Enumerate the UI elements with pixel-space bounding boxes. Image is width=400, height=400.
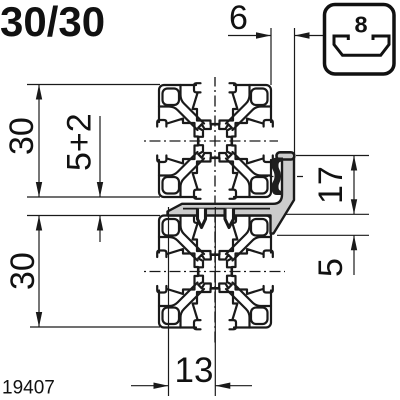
dim 5: arrow up from below (tip y=235.3) [351, 235, 357, 250]
dim: left extension line lower-top (y=215.5) [27, 215, 160, 217]
svg-text:19407: 19407 [2, 378, 55, 399]
dim 6: left arrow tail [228, 35, 271, 37]
svg-text:8: 8 [354, 12, 367, 38]
svg-text:17: 17 [312, 166, 350, 204]
icon slot glyph [334, 36, 389, 55]
lower profile 30x30 [157, 214, 273, 330]
dim 13: left arrow (tip x=168.5) [154, 383, 169, 389]
centerline vertical [214, 77, 216, 206]
svg-text:30: 30 [3, 117, 41, 155]
dim: left extension line top (y=84.5) [27, 84, 160, 86]
svg-text:30/30: 30/30 [0, 0, 105, 45]
dim: left extension line upper-bottom (y=197) [27, 196, 160, 198]
dim 6: extension line right (x=294.5) [294, 28, 296, 156]
centerline bracket axis [257, 176, 303, 178]
dim 6: left arrow (tip x=271) [256, 32, 271, 38]
dim 17: arrow down [351, 199, 357, 214]
dim 6: right arrow tail [295, 35, 324, 37]
dim 30 upper: arrow up [36, 85, 42, 100]
dim 13: right arrow tail [215, 385, 252, 387]
svg-text:13: 13 [175, 351, 214, 390]
centerline horizontal upper [143, 140, 278, 142]
svg-text:5+2: 5+2 [61, 113, 99, 171]
dim 17: line [353, 156, 355, 215]
dim 30 upper: line [38, 85, 40, 198]
dim: left extension line bottom (y=327) [30, 326, 160, 328]
dim 30 lower: line [38, 216, 40, 328]
dim 17: extension line bottom (y=214.3) [285, 213, 369, 215]
dim 13: extension line left (x=168.5) [168, 207, 170, 396]
bracket tooth right [225, 209, 234, 228]
centerline horizontal lower [143, 271, 285, 273]
icon slot-8 box [325, 5, 395, 75]
dim 13: extension line right (x=215.3) [214, 207, 216, 396]
bracket tooth left [198, 209, 206, 228]
dim 17: arrow up [351, 156, 357, 171]
dim 6: extension line left (x=271 above profile) [270, 28, 272, 85]
dim 5+2: arrow down (tip y=197) [97, 182, 103, 197]
bracket clamp profile body (gray) [168, 157, 295, 234]
bracket leg top cap [277, 152, 295, 159]
svg-text:30: 30 [4, 252, 42, 290]
dim 30 lower: arrow up [36, 216, 42, 231]
bracket tongue (clamp spring) [272, 158, 284, 196]
svg-text:6: 6 [229, 0, 248, 37]
dim 17: extension line top (y=155) [296, 155, 369, 157]
dim 6: right arrow (tip x=294.5) [295, 32, 310, 38]
bracket arm underside step [183, 208, 270, 210]
dim 30 lower: arrow down [36, 312, 42, 327]
dim 5+2: arrow up from below (tip y=215.5) [97, 216, 103, 231]
svg-text:5: 5 [312, 258, 350, 277]
dim 5: extension line (y=235.3) [277, 234, 369, 236]
dim 30 upper: arrow down [36, 182, 42, 197]
dim 5+2: line [99, 116, 101, 197]
dim 13: right arrow (tip x=215.3) [215, 383, 230, 389]
upper profile 30x30 [157, 83, 273, 199]
dim 13: left arrow tail [131, 385, 169, 387]
